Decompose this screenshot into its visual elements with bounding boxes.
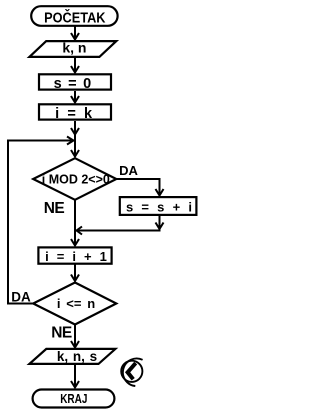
decision diamond1 i MOD 2<>0 [33, 158, 116, 200]
terminator KRAJ [33, 390, 115, 408]
arrowhead mid junction [71, 128, 79, 135]
arrowhead into output k,n,s [71, 341, 79, 348]
wire i=i+1 to diamond2 [74, 264, 76, 280]
arrowhead into s=s+i [156, 189, 164, 196]
logo icon outer spiral arc [123, 358, 143, 386]
arrowhead left into main line [77, 227, 83, 235]
svg-text:k, n, s: k, n, s [57, 349, 97, 364]
process rect i=k [39, 104, 111, 119]
svg-text:s = s + i: s = s + i [126, 199, 192, 214]
wire s=0 to i=k [74, 91, 76, 102]
arrowhead into i=k [71, 96, 79, 103]
arrowhead into diamond1 [71, 150, 79, 157]
decision diamond2 i<=n [33, 283, 116, 325]
svg-text:i = i + 1: i = i + 1 [45, 249, 107, 264]
input parallelogram k,n [29, 41, 116, 57]
svg-text:i <= n: i <= n [57, 296, 95, 311]
svg-text:DA: DA [119, 163, 138, 178]
process rect s=0 [39, 74, 111, 89]
svg-text:s = 0: s = 0 [54, 76, 92, 92]
loop-in horizontal wire [8, 140, 72, 142]
arrowhead down onto bar [156, 223, 164, 230]
svg-text:NE: NE [51, 324, 72, 341]
process rect s=s+i [120, 197, 197, 215]
wire output to KRAJ [74, 365, 76, 387]
arrowhead loop-in [67, 137, 74, 145]
arrowhead into diamond2 [71, 275, 79, 282]
wire input to s=0 [74, 58, 76, 72]
svg-text:i MOD 2<>0: i MOD 2<>0 [42, 172, 110, 186]
wire DA loop left and up [8, 140, 33, 304]
svg-text:NE: NE [44, 200, 65, 217]
wire i=k down to junction and diamond1 [74, 121, 76, 156]
svg-text:POČETAK: POČETAK [44, 10, 106, 26]
wire start to input [74, 26, 76, 39]
output parallelogram k,n,s [29, 349, 115, 364]
arrowhead into i=i+1 [71, 239, 79, 246]
wire s=s+i down-left [78, 216, 160, 231]
main NE wire diamond1 to i=i+1 [74, 200, 76, 245]
svg-text:k, n: k, n [62, 39, 86, 55]
svg-text:DA: DA [11, 289, 31, 304]
logo icon chevron stroke [128, 363, 136, 379]
process rect i=i+1 [38, 247, 111, 263]
wire NE down from diamond2 [74, 325, 76, 347]
svg-text:KRAJ: KRAJ [60, 393, 87, 406]
wire DA branch right [115, 179, 159, 195]
arrowhead into KRAJ [71, 381, 79, 388]
arrowhead into s=0 [71, 66, 79, 73]
svg-text:i = k: i = k [55, 106, 93, 122]
arrowhead into k,n [71, 33, 79, 40]
logo icon inner circle [121, 361, 142, 382]
terminator POCETAK [31, 6, 117, 26]
